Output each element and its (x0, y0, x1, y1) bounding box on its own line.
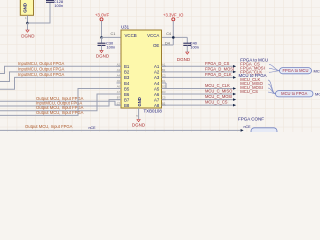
svg-text:100n: 100n (54, 3, 63, 8)
svg-text:B3: B3 (124, 75, 130, 80)
svg-text:FPGA_D_MOSI: FPGA_D_MOSI (205, 66, 234, 71)
svg-text:GND: GND (137, 97, 142, 106)
svg-text:A2: A2 (154, 70, 160, 75)
svg-text:D4: D4 (165, 42, 170, 46)
svg-text:B8: B8 (124, 103, 130, 108)
svg-text:FPGA_D_CS: FPGA_D_CS (205, 61, 230, 66)
svg-text:OE: OE (153, 43, 159, 48)
svg-text:MCU_C_MOSI: MCU_C_MOSI (205, 94, 232, 99)
svg-text:U31: U31 (121, 25, 130, 30)
svg-text:MCU_C_CLK: MCU_C_CLK (205, 83, 230, 88)
svg-text:DGND: DGND (177, 57, 191, 62)
svg-text:TXB0108: TXB0108 (144, 108, 163, 113)
svg-text:100n: 100n (107, 45, 116, 50)
svg-text:MCU_CS: MCU_CS (240, 89, 258, 94)
svg-text:B6: B6 (124, 92, 130, 97)
svg-text:FPGA to MCU: FPGA to MCU (283, 68, 309, 73)
svg-text:DGND: DGND (21, 33, 35, 38)
svg-text:nCE: nCE (244, 125, 252, 129)
svg-text:C4: C4 (166, 32, 171, 36)
svg-text:A5: A5 (154, 86, 160, 91)
svg-text:B1: B1 (124, 64, 130, 69)
svg-text:VCCA: VCCA (147, 33, 159, 38)
svg-text:MCU_C_CS: MCU_C_CS (205, 100, 228, 105)
svg-text:nCE: nCE (89, 126, 97, 130)
svg-text:D1: D1 (162, 79, 166, 83)
svg-text:MCU to FPGA: MCU to FPGA (281, 91, 307, 96)
svg-text:FPGA_D_CLK: FPGA_D_CLK (205, 72, 232, 77)
svg-text:InputMCU, Output FPGA: InputMCU, Output FPGA (18, 61, 65, 66)
svg-text:A5: A5 (117, 79, 121, 83)
svg-text:+3.3VF_IO: +3.3VF_IO (163, 13, 184, 18)
svg-text:A1: A1 (154, 64, 160, 69)
svg-text:DGND: DGND (96, 54, 110, 59)
svg-text:A7: A7 (154, 97, 160, 102)
svg-text:MC: MC (314, 68, 320, 73)
svg-text:B5: B5 (124, 86, 130, 91)
svg-text:InputMCU, Output FPGA: InputMCU, Output FPGA (18, 66, 65, 71)
svg-text:A3: A3 (154, 75, 160, 80)
svg-text:+3.0VF: +3.0VF (95, 13, 110, 18)
svg-text:Output MCU, Input FPGA: Output MCU, Input FPGA (25, 124, 73, 129)
svg-text:A6: A6 (154, 92, 160, 97)
svg-text:A4: A4 (154, 81, 160, 86)
svg-text:Output MCU, Input FPGA: Output MCU, Input FPGA (36, 110, 84, 115)
svg-text:MCU_C_MISO: MCU_C_MISO (205, 89, 232, 94)
svg-text:MC: MC (315, 91, 320, 96)
svg-text:FPGA CONF: FPGA CONF (238, 117, 264, 122)
svg-text:B2: B2 (124, 70, 130, 75)
svg-text:100n: 100n (190, 45, 199, 50)
svg-text:GND: GND (22, 3, 27, 13)
svg-text:B7: B7 (124, 97, 130, 102)
svg-text:VCCB: VCCB (125, 33, 137, 38)
svg-text:DGND: DGND (132, 123, 146, 128)
svg-text:C1: C1 (111, 32, 116, 36)
svg-text:InputMCU, Output FPGA: InputMCU, Output FPGA (18, 72, 65, 77)
svg-text:A8: A8 (154, 103, 160, 108)
svg-text:B4: B4 (124, 81, 130, 86)
